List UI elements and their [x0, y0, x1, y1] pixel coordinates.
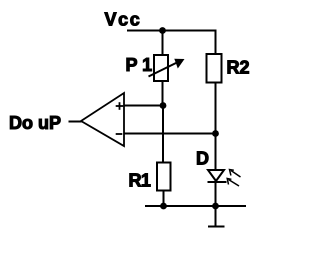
svg-text:R2: R2 [227, 58, 250, 78]
wire noninverting input [124, 105, 163, 107]
wire P1 junction to R1 [162, 106, 164, 163]
svg-text:R1: R1 [129, 170, 151, 190]
wire D anode lead [215, 134, 217, 171]
wire R2 bottom lead [215, 83, 217, 134]
photodiode D triangle [208, 170, 224, 181]
svg-text:Do uP: Do uP [9, 113, 61, 133]
svg-text:Vcc: Vcc [105, 10, 142, 30]
resistor R1 body [157, 163, 171, 191]
node junction R1/ground bus [160, 203, 167, 210]
potentiometer P1 wiper arrow [149, 62, 179, 77]
node junction Vcc/P1 [159, 27, 166, 34]
wire inverting input [124, 133, 216, 135]
resistor R2 body [207, 54, 222, 83]
wire P1 top lead [162, 31, 164, 56]
svg-text:D: D [196, 148, 209, 168]
op-amp U1 [81, 93, 124, 146]
wire R2 top lead [215, 30, 217, 55]
svg-text:P 1: P 1 [126, 55, 153, 75]
wire op-amp output [69, 121, 82, 123]
ground [215, 206, 217, 227]
wire R1 bottom lead [163, 191, 165, 207]
photodiode D light arrow 1 [231, 171, 241, 178]
potentiometer P1 body [154, 55, 168, 81]
wire ground bus [145, 205, 246, 207]
node junction D/ground bus [212, 203, 219, 210]
photodiode D cathode bar [208, 181, 227, 183]
wire Vcc bus [127, 30, 216, 32]
photodiode D light arrow 2 [229, 180, 240, 187]
wire D cathode lead [215, 182, 217, 206]
node junction inverting input / D [212, 130, 219, 137]
node junction P1 / noninverting input [160, 102, 167, 109]
wire P1 bottom lead [162, 81, 164, 106]
